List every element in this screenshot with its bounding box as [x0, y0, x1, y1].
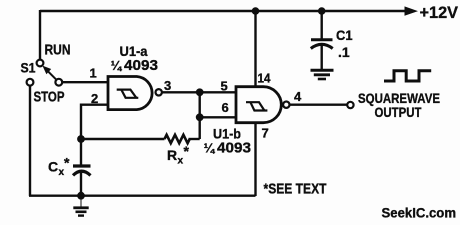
wire C1 top	[321, 11, 323, 39]
svg-text:S1: S1	[21, 60, 36, 76]
svg-text:STOP: STOP	[34, 89, 65, 106]
svg-text:2: 2	[91, 91, 98, 106]
svg-text:*: *	[184, 143, 190, 159]
svg-text:*: *	[64, 155, 70, 171]
capacitor C1 plates	[311, 40, 333, 49]
ground (Cx)	[73, 196, 88, 216]
junction node A top (pin 5)	[196, 88, 204, 96]
switch S1 STOP contact	[27, 79, 34, 86]
switch S1 RUN contact	[37, 60, 44, 67]
svg-text:14: 14	[258, 71, 272, 86]
wire Cx bottom to rail	[80, 172, 82, 196]
svg-text:7: 7	[262, 126, 269, 141]
op-amp U1-b gate body	[236, 87, 281, 123]
wire left drop to RUN contact	[39, 10, 41, 60]
wire node B horizontal through Rx	[81, 138, 165, 140]
svg-text:SeekIC.com: SeekIC.com	[382, 205, 457, 221]
svg-text:C1: C1	[336, 27, 353, 43]
svg-text:3: 3	[164, 78, 171, 93]
svg-text:¼: ¼	[111, 59, 123, 73]
svg-text:6: 6	[222, 100, 229, 115]
svg-text:1: 1	[90, 66, 97, 81]
ground (C1)	[311, 70, 334, 79]
svg-text:+12V: +12V	[420, 4, 459, 22]
svg-text:RUN: RUN	[45, 42, 71, 59]
switch S1 blade with arrow	[42, 66, 56, 80]
junction C1/rail	[318, 7, 326, 15]
svg-text:4: 4	[294, 89, 302, 104]
svg-text:C: C	[48, 159, 58, 175]
switch S1 pole contact	[55, 79, 62, 86]
junction Cx/bottom rail	[77, 192, 85, 200]
wire bottom rail	[29, 194, 256, 196]
resistor Rx	[165, 135, 190, 143]
svg-text:U1-b: U1-b	[213, 126, 241, 142]
output terminal circle	[347, 102, 353, 108]
U1-b output bubble	[283, 102, 289, 108]
capacitor Cx plates	[73, 166, 91, 175]
squarewave icon	[384, 71, 431, 81]
svg-text:4093: 4093	[124, 58, 158, 74]
wire Rx right to pin-6 node	[189, 138, 200, 140]
wire U1-b output to terminal	[290, 103, 348, 105]
+12V arrowhead	[405, 6, 419, 15]
junction pin-14/rail	[252, 7, 260, 15]
wire pin 14 to +12V rail	[254, 11, 256, 87]
wire top rail	[40, 10, 407, 12]
svg-text:*SEE TEXT: *SEE TEXT	[264, 181, 327, 198]
wire STOP contact down left side	[29, 86, 31, 196]
wire vertical node column x=199.7	[198, 92, 200, 139]
svg-text:U1-a: U1-a	[120, 43, 148, 59]
wire pin 7 to bottom rail	[254, 122, 256, 196]
wire pole to pin 1	[62, 81, 108, 83]
U1-a schmitt hysteresis symbol	[117, 90, 139, 98]
wire pin 6 of U1-b	[200, 116, 236, 118]
svg-text:4093: 4093	[217, 141, 251, 157]
junction node B (pin2/Rx/Cx)	[77, 135, 85, 143]
wire pin 2 of U1-a	[81, 105, 108, 139]
svg-text:5: 5	[221, 79, 228, 94]
svg-text:OUTPUT: OUTPUT	[375, 104, 422, 120]
svg-text:R: R	[167, 147, 177, 163]
U1-b schmitt hysteresis symbol	[246, 102, 267, 110]
svg-text:.1: .1	[338, 44, 350, 60]
junction node A bottom (pin 6)	[196, 113, 204, 121]
svg-text:¼: ¼	[204, 142, 216, 156]
wire C1 bottom to ground	[321, 45, 323, 69]
wire U1-a output to pin 5	[162, 91, 236, 93]
op-amp U1-a gate body	[108, 77, 152, 110]
wire Cx top	[80, 139, 82, 165]
U1-a output bubble	[156, 89, 162, 95]
